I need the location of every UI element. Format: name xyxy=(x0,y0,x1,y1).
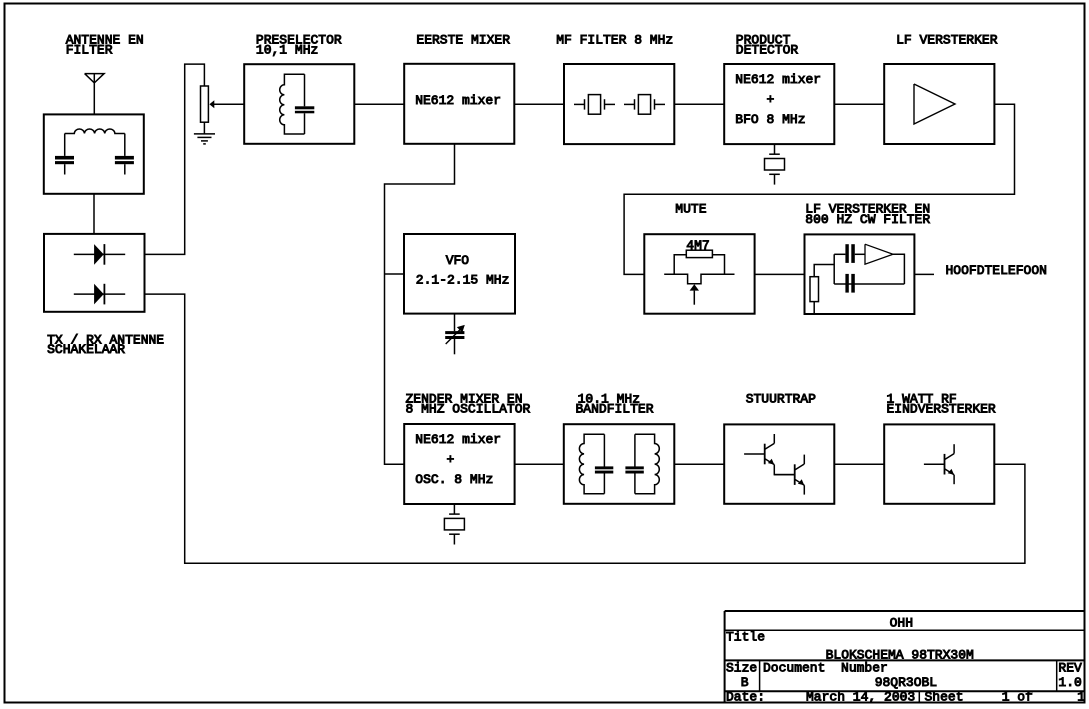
antenna symbol xyxy=(85,74,105,115)
block MF FILTER box xyxy=(564,64,674,144)
svg-text:2.1-2.15 MHz: 2.1-2.15 MHz xyxy=(416,273,510,288)
svg-text:10,1 MHz: 10,1 MHz xyxy=(256,43,318,58)
crystal X1 mf xyxy=(574,95,615,115)
text NE612 mixer + BFO 8 MHz xyxy=(735,72,821,127)
variable capacitor vfo xyxy=(445,325,465,354)
svg-text:1: 1 xyxy=(1077,690,1085,705)
svg-text:800 HZ CW FILTER: 800 HZ CW FILTER xyxy=(805,212,930,227)
diode D1 xyxy=(74,244,125,265)
capacitor bandfilter 2 xyxy=(625,434,643,493)
svg-text:NE612 mixer: NE612 mixer xyxy=(735,72,821,87)
block LF VERSTERKER box xyxy=(884,64,994,144)
capacitor lfen top xyxy=(845,244,854,263)
svg-text:March 14, 2003: March 14, 2003 xyxy=(806,690,915,705)
inductor L filter xyxy=(65,129,125,133)
block PRODUCT DETECTOR box xyxy=(724,64,834,144)
wire filter cap2 lead xyxy=(124,134,126,156)
capacitor C1 filter xyxy=(55,156,74,175)
wire presel to mixer1 xyxy=(354,103,404,105)
block STUURTRAP box xyxy=(724,424,834,503)
wiper arrow to preselector xyxy=(209,100,244,108)
block BANDFILTER box xyxy=(564,424,675,504)
title block outline xyxy=(725,611,1085,703)
svg-text:Document Number: Document Number xyxy=(763,661,888,676)
svg-text:Sheet: Sheet xyxy=(925,690,964,705)
block PRESELECTOR box xyxy=(244,64,354,144)
svg-text:SCHAKELAAR: SCHAKELAAR xyxy=(47,342,125,357)
svg-text:REV: REV xyxy=(1058,661,1082,676)
block ANTENNE EN FILTER box xyxy=(44,114,144,193)
ground symbol xyxy=(194,134,215,144)
transistor Q2 xyxy=(774,455,804,495)
wire mixer1 to mf filter xyxy=(514,103,564,105)
svg-text:FILTER: FILTER xyxy=(66,43,113,58)
svg-text:98QR3OBL: 98QR3OBL xyxy=(875,675,937,690)
wire pot to ground xyxy=(203,122,205,134)
svg-text:LF VERSTERKER: LF VERSTERKER xyxy=(896,33,998,48)
label TX / RX ANTENNE SCHAKELAAR xyxy=(47,332,164,357)
capacitor bandfilter 1 xyxy=(595,434,613,493)
label 10.1 MHz BANDFILTER xyxy=(576,391,654,416)
block TX/RX ANTENNE SCHAKELAAR box xyxy=(44,234,145,312)
text VFO 2.1-2.15 MHz xyxy=(416,253,510,288)
wire lf out loop to mute xyxy=(624,104,1014,274)
svg-text:EERSTE MIXER: EERSTE MIXER xyxy=(416,33,510,48)
wire filter to switch xyxy=(93,194,95,234)
wire resistor left leg xyxy=(674,255,686,275)
svg-text:8 MHZ OSCILLATOR: 8 MHZ OSCILLATOR xyxy=(406,402,531,417)
wire mute to lf-en filter xyxy=(755,273,805,275)
transistor mute fet channel xyxy=(664,274,734,284)
wire Q1 emitter to Q2 base xyxy=(774,473,794,476)
wire vfo bottom stub xyxy=(454,314,456,332)
svg-text:Title: Title xyxy=(726,629,765,644)
svg-text:+: + xyxy=(735,92,774,107)
wire stuurtrap to eindversterker xyxy=(834,463,884,465)
block EERSTE MIXER box xyxy=(404,64,514,144)
wire lfen to hoofdtelefoon xyxy=(914,273,934,275)
op-amp triangle lfen xyxy=(865,244,893,264)
label 1 WATT RF EINDVERSTERKER xyxy=(887,391,996,416)
wire zender to bandfilter xyxy=(515,463,564,465)
wire opamp out xyxy=(893,254,904,284)
svg-text:Date:: Date: xyxy=(726,690,765,705)
wire lfen top lead xyxy=(834,253,845,255)
transistor Q1 xyxy=(744,434,774,474)
transistor Q3 xyxy=(924,444,954,484)
inductor L bandfilter 2 xyxy=(635,434,659,493)
wire mixer1 to vfo net xyxy=(385,144,455,465)
resistor lfen xyxy=(810,277,819,302)
wire mf to product detector xyxy=(674,103,724,105)
svg-text:1.0: 1.0 xyxy=(1058,675,1081,690)
svg-text:NE612 mixer: NE612 mixer xyxy=(415,93,501,108)
wire lfen resistor bottom xyxy=(813,302,815,314)
svg-text:OSC. 8 MHz: OSC. 8 MHz xyxy=(415,472,493,487)
svg-text:VFO: VFO xyxy=(446,253,470,268)
inductor L bandfilter 1 xyxy=(579,434,604,493)
diode D2 xyxy=(74,284,125,305)
svg-text:STUURTRAP: STUURTRAP xyxy=(746,391,816,406)
wire resistor right leg xyxy=(712,255,724,275)
label LF VERSTERKER EN 800 HZ CW FILTER xyxy=(805,202,930,227)
potentiometer R1 xyxy=(201,86,209,122)
inductor L presel xyxy=(280,74,305,134)
wire eind out to antenna switch xyxy=(145,294,1025,563)
wire cap to opamp xyxy=(855,253,865,255)
svg-text:BANDFILTER: BANDFILTER xyxy=(576,402,654,417)
svg-text:1 of: 1 of xyxy=(1002,690,1033,705)
capacitor C presel xyxy=(295,74,314,134)
mute fet gate arrow xyxy=(690,284,699,304)
wire lfen input jog xyxy=(814,265,834,277)
wire proddet to lf versterker xyxy=(834,103,884,105)
svg-text:+: + xyxy=(415,452,454,467)
wire bandfilter to stuurtrap xyxy=(674,463,724,465)
crystal X2 mf xyxy=(624,95,665,115)
wire vfo stub xyxy=(385,273,405,275)
svg-text:EINDVERSTERKER: EINDVERSTERKER xyxy=(887,402,996,417)
svg-text:DETECTOR: DETECTOR xyxy=(736,43,799,58)
svg-text:BFO 8 MHz: BFO 8 MHz xyxy=(735,112,805,127)
block EINDVERSTERKER box xyxy=(884,424,994,503)
op-amp triangle lf xyxy=(914,84,955,124)
svg-text:HOOFDTELEFOON: HOOFDTELEFOON xyxy=(946,263,1047,278)
capacitor C2 filter xyxy=(115,156,134,175)
label ANTENNE EN FILTER xyxy=(66,33,144,58)
capacitor lfen bottom xyxy=(845,274,854,293)
wire filter cap1 lead xyxy=(64,134,66,156)
wire lfen bottom xyxy=(834,283,904,285)
svg-text:MF FILTER 8 MHz: MF FILTER 8 MHz xyxy=(556,33,673,48)
svg-text:MUTE: MUTE xyxy=(675,202,706,217)
block VFO box xyxy=(404,234,515,314)
text NE612 mixer + OSC. 8 MHz xyxy=(415,432,501,487)
crystal X3 bfo xyxy=(765,144,785,185)
wire lfen left vertical xyxy=(833,254,835,284)
label ZENDER MIXER EN 8 MHZ OSCILLATOR xyxy=(406,391,531,416)
svg-text:Size: Size xyxy=(726,661,757,676)
svg-text:OHH: OHH xyxy=(890,616,913,631)
wire D1 to node up xyxy=(145,64,205,254)
svg-text:B: B xyxy=(741,675,749,690)
label PRODUCT DETECTOR xyxy=(736,33,799,58)
block ZENDER MIXER box xyxy=(404,424,514,504)
svg-text:NE612 mixer: NE612 mixer xyxy=(415,432,501,447)
label PRESELECTOR 10,1 MHz xyxy=(256,33,342,58)
resistor 4M7 xyxy=(686,250,712,257)
crystal X4 osc xyxy=(444,504,464,545)
block LF-EN-CW box xyxy=(805,234,915,314)
block MUTE box xyxy=(644,234,754,314)
